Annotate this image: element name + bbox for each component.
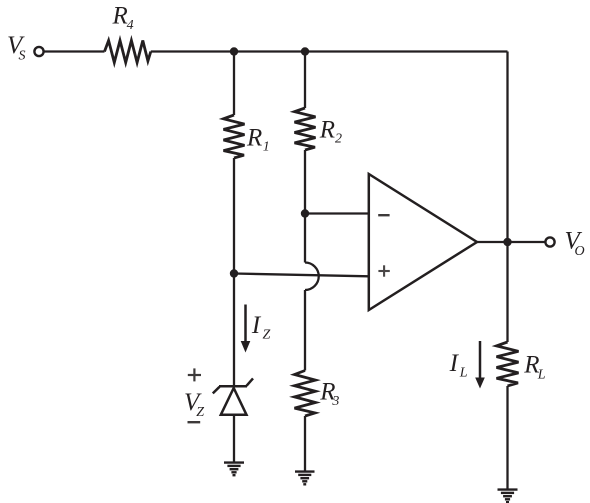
label R1 [246,125,270,155]
label R4 [112,3,134,33]
wire hop to R3 [304,290,306,371]
label plus of Vz [188,368,201,381]
svg-text:R: R [319,116,335,143]
label V_Z [184,389,204,420]
terminal Vs [34,47,43,56]
label V_O [565,227,585,259]
wire op-amp output [477,241,545,243]
node top-R2 [301,47,309,55]
ground under R3 [295,472,315,485]
node top-R1 [230,47,238,55]
current arrow IL [475,341,485,389]
wire Vs to R4 [45,50,105,52]
svg-text:Z: Z [196,405,204,420]
svg-text:L: L [537,367,546,382]
svg-text:R: R [246,125,262,152]
svg-text:2: 2 [335,132,342,147]
current arrow IZ [241,305,251,353]
label I_L [449,350,468,381]
svg-text:4: 4 [127,18,134,33]
wire R2 to hop [304,150,306,263]
label V_S [7,32,26,63]
resistor R2 [295,108,316,150]
wire RL to ground [506,386,508,489]
label I_Z [251,312,271,343]
wire zener to ground [233,415,235,462]
resistor R4 [105,41,151,63]
resistor R3 [295,371,316,417]
label R3 [319,379,339,409]
op-amp plus symbol [378,265,389,276]
resistor RL [497,342,519,386]
svg-text:Z: Z [263,328,271,343]
wire top rail R4 to right corner [151,50,508,52]
wire R1 to node A [233,158,235,274]
label minus of Vz [188,421,201,423]
label RL [523,351,546,382]
resistor R1 [224,115,245,158]
svg-text:R: R [112,3,128,30]
ground under zener [224,463,244,476]
op-amp U1 [369,174,477,310]
node output [503,238,511,246]
wire node B to op-amp inverting input [305,212,369,214]
wire R3 to ground [304,416,306,471]
svg-text:L: L [459,366,468,381]
zener diode DZ anode triangle [221,388,247,415]
svg-text:I: I [449,350,460,377]
wire node A to op-amp noninverting input [234,274,369,277]
label R2 [319,116,342,146]
svg-text:3: 3 [331,394,339,409]
wire node A to zener [233,274,235,387]
wire node to R2 [304,52,306,109]
wire hop over noninverting wire [305,263,319,291]
op-amp minus symbol [378,214,389,216]
svg-text:I: I [251,312,262,339]
node B (inverting input node) [301,209,309,217]
svg-text:O: O [575,244,585,259]
wire right drop from top rail to output node [506,52,508,243]
terminal Vo [545,237,554,246]
svg-text:1: 1 [263,139,270,154]
zener diode DZ cathode bar with bent tails [213,378,253,393]
svg-text:S: S [19,48,26,63]
ground under RL [498,490,518,503]
wire output node to RL [506,242,508,342]
wire node to R1 [233,52,235,116]
node A (noninverting node on R1 branch) [230,269,238,277]
